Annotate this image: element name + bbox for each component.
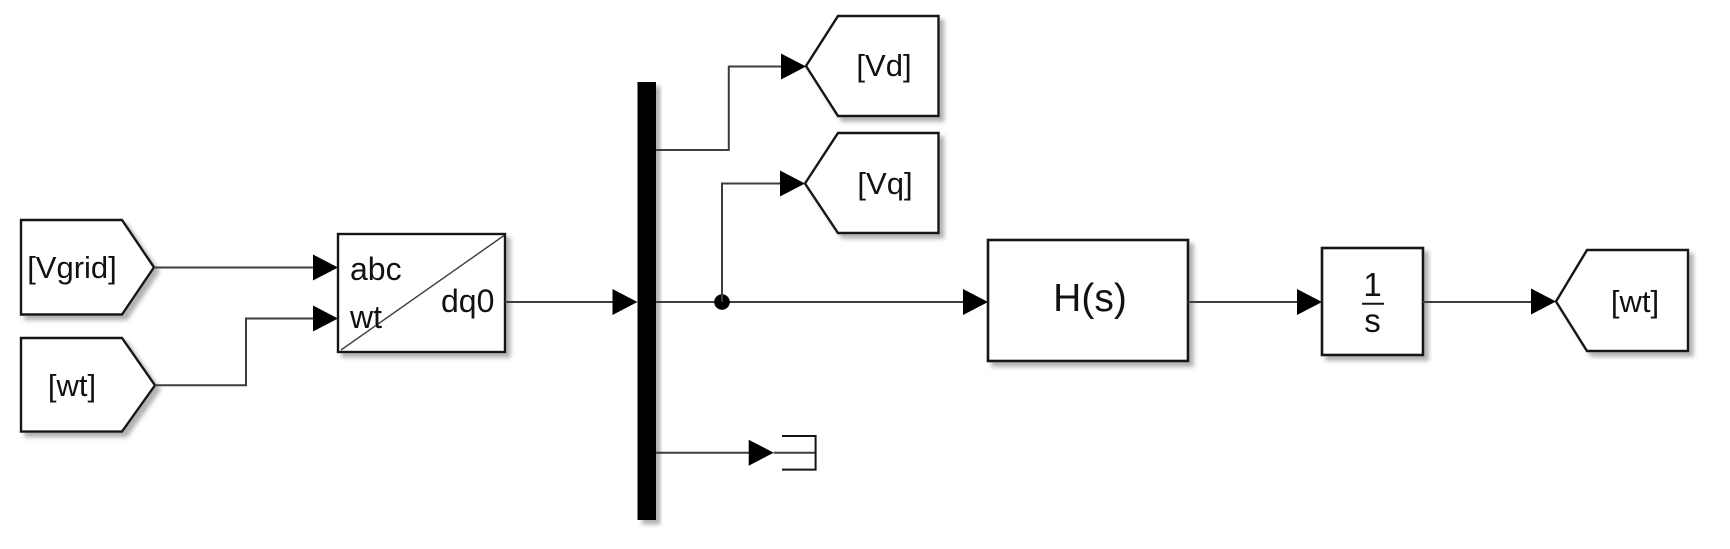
svg-text:[Vgrid]: [Vgrid] bbox=[27, 250, 117, 285]
svg-text:wt: wt bbox=[349, 299, 382, 335]
wire dq0 output to demux bbox=[505, 301, 613, 303]
svg-text:[wt]: [wt] bbox=[1611, 284, 1659, 319]
arrowhead Vd input bbox=[781, 54, 806, 80]
arrowhead abc input bbox=[313, 255, 338, 281]
svg-text:abc: abc bbox=[350, 251, 402, 287]
arrowhead demux input bbox=[613, 289, 638, 315]
transfer function block H(s) bbox=[988, 240, 1188, 361]
svg-text:[wt]: [wt] bbox=[48, 368, 96, 403]
svg-text:[Vd]: [Vd] bbox=[856, 48, 911, 83]
Goto tag [wt] (right) bbox=[1556, 250, 1688, 351]
arrowhead integrator input bbox=[1297, 289, 1322, 315]
Goto tag [Vq] bbox=[805, 133, 939, 233]
arrowhead wt goto input bbox=[1531, 289, 1556, 315]
main wire demux to H(s) bbox=[656, 301, 963, 303]
junction dot bbox=[714, 294, 730, 310]
svg-text:dq0: dq0 bbox=[441, 283, 494, 319]
integrator block 1/s bbox=[1322, 248, 1423, 355]
From tag [Vgrid] bbox=[21, 220, 154, 315]
wire wt to wt input bbox=[155, 319, 314, 386]
svg-text:H(s): H(s) bbox=[1053, 277, 1127, 320]
svg-text:s: s bbox=[1364, 302, 1381, 339]
abc/dq0 transform block bbox=[338, 234, 505, 352]
arrowhead unused output bbox=[749, 440, 774, 466]
arrowhead Vq input bbox=[780, 171, 805, 197]
wire integrator to [wt] goto bbox=[1423, 301, 1532, 303]
Goto tag [Vd] bbox=[806, 16, 939, 116]
wire junction to [Vq] bbox=[722, 184, 781, 303]
wire demux to [Vd] bbox=[656, 67, 782, 151]
wire H(s) to integrator bbox=[1188, 301, 1298, 303]
svg-text:[Vq]: [Vq] bbox=[857, 166, 912, 201]
wire stub into open port bbox=[774, 452, 816, 454]
From tag [wt] (left) bbox=[21, 338, 155, 432]
wire Vgrid to abc input bbox=[154, 267, 314, 269]
arrowhead H(s) input bbox=[963, 289, 988, 315]
svg-text:1: 1 bbox=[1363, 266, 1381, 303]
arrowhead wt input bbox=[313, 306, 338, 332]
open port bracket bbox=[782, 436, 816, 470]
fraction bar bbox=[1362, 303, 1384, 305]
demux bar bbox=[638, 82, 657, 520]
diagonal of abc/dq0 block bbox=[341, 236, 504, 351]
wire demux unused output bbox=[656, 452, 749, 454]
